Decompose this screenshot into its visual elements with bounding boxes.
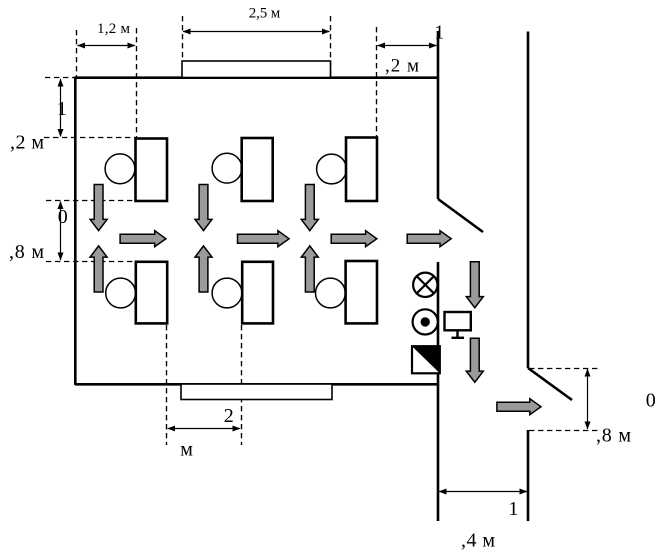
svg-text:,4 м: ,4 м	[461, 530, 495, 552]
top window	[182, 61, 331, 78]
svg-text:2,5 м: 2,5 м	[249, 6, 281, 22]
svg-text:,2 м: ,2 м	[385, 56, 419, 77]
svg-text:,8 м: ,8 м	[596, 425, 631, 447]
flow arrow up col1	[90, 246, 107, 292]
flow arrow down col3	[301, 185, 318, 231]
svg-text:,8 м: ,8 м	[9, 241, 44, 263]
desk row2 col1	[136, 262, 167, 324]
flow arrow right 4	[407, 231, 451, 247]
dimension arrow 2m bottom	[168, 428, 240, 430]
svg-text:1: 1	[57, 98, 67, 120]
svg-text:1,2 м: 1,2 м	[97, 21, 131, 37]
monitor symbol	[445, 312, 471, 338]
dimension arrow 1,2m top-left	[78, 45, 136, 47]
corridor door leaf diagonal	[528, 368, 572, 400]
flow arrow right 3	[331, 231, 377, 247]
desk row1 col2	[242, 138, 273, 201]
dashed extension line x=76 above top wall	[76, 30, 78, 77]
desk row1 col1	[136, 139, 168, 202]
corridor right wall lower segment	[527, 430, 530, 521]
dashed level line y=78 left of wall	[45, 77, 75, 79]
desk row2 col2	[242, 262, 273, 324]
chair circle row2 col1	[106, 278, 136, 308]
dimension arrow vertical left 0,8m	[60, 202, 62, 261]
room right wall lower segment	[437, 262, 440, 521]
chair circle row1 col3	[317, 154, 347, 184]
desk row2 col3	[346, 261, 377, 323]
flow arrow down corridor 2	[466, 338, 483, 382]
flow arrow up col2	[195, 246, 212, 292]
flow arrow right 2	[238, 231, 290, 247]
desk row1 col3	[346, 138, 377, 202]
dashed level line y=261.3	[46, 261, 136, 263]
corridor door dashed opening bottom	[529, 430, 600, 432]
flow arrow down col2	[195, 185, 212, 231]
dashed extension line x=330 window right	[330, 16, 332, 77]
svg-text:1: 1	[508, 498, 518, 520]
dashed extension line x=136 from top to desk1	[136, 28, 138, 138]
left wall	[74, 77, 77, 386]
room door leaf diagonal	[438, 199, 483, 232]
chair circle row2 col2	[212, 278, 242, 308]
lamp symbol circle with X	[413, 273, 437, 297]
indicator symbol circle with dot	[413, 309, 438, 334]
bottom window	[181, 384, 332, 400]
dashed guide x=166.7 below room	[166, 325, 168, 445]
dimension arrow vertical 0,8m door	[587, 369, 589, 429]
corridor door dashed opening top	[529, 368, 600, 370]
chair circle row2 col3	[316, 278, 346, 308]
flow arrow right 1	[120, 231, 166, 247]
svg-text:м: м	[180, 438, 193, 460]
bottom wall	[75, 383, 438, 386]
dimension arrow vertical left 1,2m	[60, 79, 62, 137]
flow arrow right exit	[497, 399, 541, 415]
dashed extension line x=182 window left	[182, 16, 184, 77]
dimension arrow 2,5m	[183, 31, 330, 33]
room right wall upper segment	[437, 31, 440, 199]
chair circle row1 col2	[212, 153, 242, 183]
flow arrow down corridor 1	[466, 262, 483, 308]
flow arrow down col1	[90, 185, 107, 231]
dashed level line y=137.7	[44, 137, 136, 139]
dashed level line y=201	[46, 200, 136, 202]
chair circle row1 col1	[105, 154, 135, 184]
corridor right wall upper segment	[527, 32, 530, 369]
dashed guide x=241 below room	[241, 325, 243, 445]
dashed extension line x=376	[376, 27, 378, 138]
alarm symbol square with black triangle	[412, 346, 440, 373]
svg-text:0: 0	[646, 390, 656, 412]
dimension arrow 1,4m corridor	[439, 491, 527, 493]
dimension arrow 1,2m top-right	[378, 45, 437, 47]
top wall	[75, 76, 438, 79]
svg-text:2: 2	[224, 405, 234, 427]
svg-text:0: 0	[58, 206, 68, 228]
svg-text:,2 м: ,2 м	[10, 132, 44, 154]
flow arrow up col3	[301, 246, 318, 292]
